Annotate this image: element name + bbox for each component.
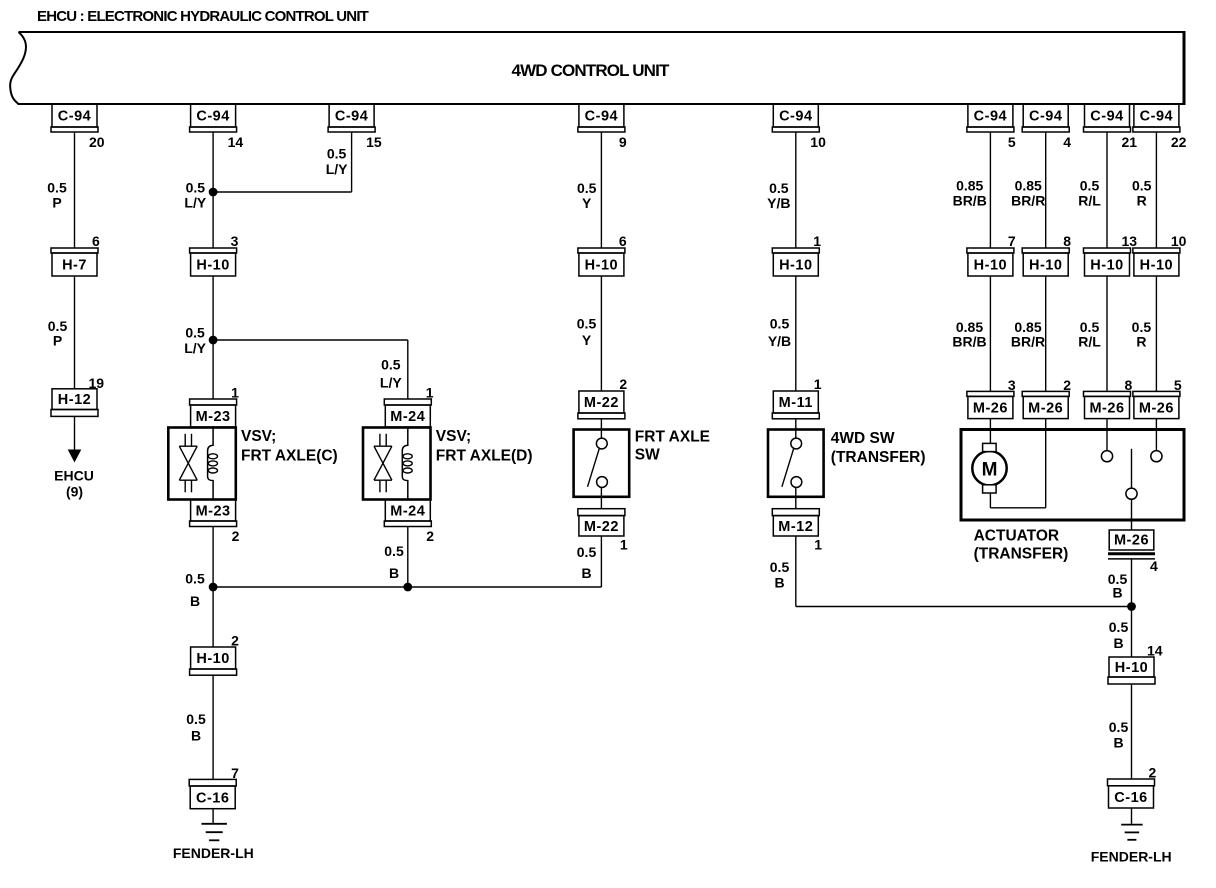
svg-text:15: 15 <box>366 134 382 150</box>
svg-text:B: B <box>190 593 200 609</box>
svg-text:B: B <box>389 565 399 581</box>
svg-text:0.5: 0.5 <box>384 543 404 559</box>
svg-text:BR/R: BR/R <box>1011 334 1045 350</box>
svg-text:0.5: 0.5 <box>1132 178 1152 194</box>
svg-text:10: 10 <box>1171 233 1187 249</box>
svg-text:0.5: 0.5 <box>185 571 205 587</box>
svg-text:0.85: 0.85 <box>956 178 983 194</box>
svg-text:0.85: 0.85 <box>1015 178 1042 194</box>
svg-text:14: 14 <box>1147 643 1163 659</box>
svg-text:0.5: 0.5 <box>47 180 67 196</box>
svg-text:M-22: M-22 <box>584 395 619 411</box>
svg-text:0.5: 0.5 <box>327 146 347 162</box>
svg-text:L/Y: L/Y <box>380 375 402 391</box>
svg-text:R: R <box>1136 334 1146 350</box>
svg-text:20: 20 <box>89 134 105 150</box>
svg-text:C-16: C-16 <box>196 790 229 806</box>
svg-text:0.5: 0.5 <box>186 180 206 196</box>
svg-text:8: 8 <box>1063 233 1071 249</box>
svg-text:0.5: 0.5 <box>577 316 597 332</box>
svg-text:Y: Y <box>582 332 592 348</box>
svg-text:BR/B: BR/B <box>952 334 986 350</box>
svg-text:B: B <box>1112 585 1122 601</box>
svg-text:FENDER-LH: FENDER-LH <box>173 845 254 861</box>
svg-text:VSV;: VSV; <box>436 428 471 445</box>
svg-text:EHCU: EHCU <box>54 468 94 484</box>
svg-text:1: 1 <box>814 376 822 392</box>
svg-text:2: 2 <box>619 376 627 392</box>
svg-text:2: 2 <box>231 633 239 649</box>
svg-text:B: B <box>581 565 591 581</box>
svg-text:C-94: C-94 <box>58 109 91 125</box>
svg-text:H-10: H-10 <box>1140 258 1173 274</box>
svg-text:H-10: H-10 <box>1029 258 1062 274</box>
svg-text:14: 14 <box>228 134 244 150</box>
svg-text:H-10: H-10 <box>196 651 229 667</box>
svg-text:H-10: H-10 <box>585 258 618 274</box>
svg-text:0.5: 0.5 <box>186 711 206 727</box>
svg-text:2: 2 <box>426 528 434 544</box>
svg-text:4: 4 <box>1063 134 1071 150</box>
svg-text:FRT AXLE(D): FRT AXLE(D) <box>436 448 533 465</box>
svg-text:(9): (9) <box>66 484 83 500</box>
svg-text:C-94: C-94 <box>1140 109 1173 125</box>
svg-text:4: 4 <box>1150 558 1158 574</box>
svg-text:B: B <box>191 728 201 744</box>
svg-text:M-23: M-23 <box>196 409 231 425</box>
svg-text:M-26: M-26 <box>1089 401 1124 417</box>
svg-text:SW: SW <box>635 447 660 464</box>
svg-text:C-94: C-94 <box>585 109 618 125</box>
svg-text:5: 5 <box>1008 134 1016 150</box>
svg-text:VSV;: VSV; <box>241 428 276 445</box>
svg-text:Y/B: Y/B <box>768 333 791 349</box>
svg-text:L/Y: L/Y <box>326 161 348 177</box>
svg-text:1: 1 <box>426 385 434 401</box>
svg-text:0.5: 0.5 <box>769 180 789 196</box>
svg-text:B: B <box>774 575 784 591</box>
svg-text:M-26: M-26 <box>1028 401 1063 417</box>
svg-text:ACTUATOR: ACTUATOR <box>974 528 1060 545</box>
svg-text:0.5: 0.5 <box>1109 619 1129 635</box>
svg-text:C-94: C-94 <box>974 109 1007 125</box>
svg-text:M-26: M-26 <box>973 401 1008 417</box>
svg-text:1: 1 <box>620 537 628 553</box>
svg-text:H-12: H-12 <box>58 392 91 408</box>
svg-text:7: 7 <box>1008 233 1016 249</box>
svg-text:BR/R: BR/R <box>1011 193 1045 209</box>
svg-text:M-11: M-11 <box>779 395 813 411</box>
svg-text:L/Y: L/Y <box>184 195 206 211</box>
svg-text:M-24: M-24 <box>390 503 425 519</box>
svg-text:R: R <box>1137 193 1147 209</box>
svg-text:0.5: 0.5 <box>770 316 790 332</box>
svg-text:B: B <box>1113 635 1123 651</box>
svg-text:FENDER-LH: FENDER-LH <box>1091 849 1172 865</box>
svg-text:2: 2 <box>1149 765 1157 781</box>
svg-text:3: 3 <box>231 233 239 249</box>
svg-text:22: 22 <box>1171 134 1187 150</box>
svg-text:0.5: 0.5 <box>770 559 790 575</box>
svg-text:M-26: M-26 <box>1114 533 1149 549</box>
svg-text:9: 9 <box>619 134 627 150</box>
svg-text:10: 10 <box>810 134 826 150</box>
svg-text:FRT AXLE(C): FRT AXLE(C) <box>241 448 338 465</box>
svg-text:B: B <box>1113 735 1123 751</box>
svg-text:4WD CONTROL UNIT: 4WD CONTROL UNIT <box>511 61 669 80</box>
svg-text:FRT AXLE: FRT AXLE <box>635 429 710 446</box>
svg-text:8: 8 <box>1125 377 1133 393</box>
svg-text:19: 19 <box>89 375 105 391</box>
svg-text:C-94: C-94 <box>1029 109 1062 125</box>
svg-text:R/L: R/L <box>1078 193 1101 209</box>
svg-text:(TRANSFER): (TRANSFER) <box>831 449 926 466</box>
svg-text:P: P <box>52 195 61 211</box>
svg-text:M-12: M-12 <box>778 519 813 535</box>
svg-text:6: 6 <box>619 233 627 249</box>
svg-text:4WD SW: 4WD SW <box>831 430 895 447</box>
svg-text:0.5: 0.5 <box>381 357 401 373</box>
svg-text:BR/B: BR/B <box>953 193 987 209</box>
svg-text:0.5: 0.5 <box>1080 178 1100 194</box>
svg-text:2: 2 <box>1063 377 1071 393</box>
svg-text:21: 21 <box>1122 134 1138 150</box>
svg-text:H-10: H-10 <box>1115 660 1148 676</box>
svg-text:M-23: M-23 <box>196 503 231 519</box>
svg-text:M-22: M-22 <box>584 519 619 535</box>
svg-text:H-10: H-10 <box>196 258 229 274</box>
svg-text:C-94: C-94 <box>779 109 812 125</box>
svg-text:Y: Y <box>582 195 592 211</box>
svg-text:(TRANSFER): (TRANSFER) <box>974 546 1069 563</box>
svg-text:P: P <box>53 333 62 349</box>
svg-text:0.5: 0.5 <box>185 325 205 341</box>
svg-text:13: 13 <box>1122 233 1138 249</box>
svg-text:M: M <box>982 460 998 481</box>
svg-text:3: 3 <box>1008 377 1016 393</box>
svg-text:C-94: C-94 <box>1090 109 1123 125</box>
svg-text:C-16: C-16 <box>1114 790 1147 806</box>
svg-text:M-26: M-26 <box>1139 401 1174 417</box>
svg-text:0.5: 0.5 <box>577 180 597 196</box>
svg-text:H-10: H-10 <box>974 258 1007 274</box>
svg-text:1: 1 <box>814 537 822 553</box>
svg-text:0.5: 0.5 <box>1109 719 1129 735</box>
svg-text:7: 7 <box>231 765 239 781</box>
svg-text:C-94: C-94 <box>335 109 368 125</box>
svg-text:L/Y: L/Y <box>184 340 206 356</box>
svg-text:C-94: C-94 <box>196 109 229 125</box>
svg-text:5: 5 <box>1174 377 1182 393</box>
svg-text:6: 6 <box>92 233 100 249</box>
svg-text:1: 1 <box>813 233 821 249</box>
svg-text:H-7: H-7 <box>62 258 87 274</box>
svg-text:H-10: H-10 <box>1090 258 1123 274</box>
svg-text:R/L: R/L <box>1078 334 1101 350</box>
svg-text:Y/B: Y/B <box>767 195 790 211</box>
svg-text:M-24: M-24 <box>390 409 425 425</box>
svg-text:H-10: H-10 <box>779 258 812 274</box>
svg-text:EHCU : ELECTRONIC HYDRAULIC CO: EHCU : ELECTRONIC HYDRAULIC CONTROL UNIT <box>37 8 369 25</box>
svg-text:2: 2 <box>232 528 240 544</box>
svg-text:1: 1 <box>231 385 239 401</box>
svg-text:0.5: 0.5 <box>577 544 597 560</box>
